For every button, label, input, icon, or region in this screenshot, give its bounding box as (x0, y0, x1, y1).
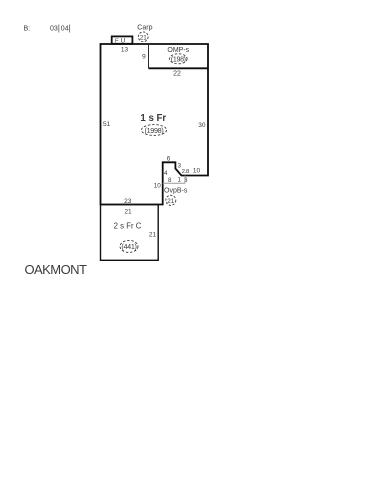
svg-text:(441): (441) (121, 242, 136, 251)
svg-text:13: 13 (121, 47, 129, 54)
svg-text:2.8: 2.8 (182, 169, 189, 175)
svg-text:Carp: Carp (137, 25, 152, 32)
OMP bottom divider (149, 67, 209, 69)
svg-text:6: 6 (167, 156, 171, 163)
svg-text:(198): (198) (171, 56, 186, 63)
svg-text:OMP-s: OMP-s (167, 47, 189, 54)
svg-text:22: 22 (173, 71, 181, 78)
svg-text:2 s Fr C: 2 s Fr C (114, 221, 142, 230)
svg-text:4: 4 (164, 170, 168, 177)
svg-text:51: 51 (103, 121, 111, 128)
svg-text:B:: B: (24, 26, 31, 33)
wing 2 s Fr C outline (101, 205, 159, 261)
area oval 1998 (141, 125, 166, 136)
svg-text:21: 21 (149, 232, 157, 239)
svg-text:OAKMONT: OAKMONT (25, 262, 87, 277)
area circle OvpB 21 (166, 195, 176, 205)
svg-text:OvpB-s: OvpB-s (164, 188, 188, 195)
svg-text:10: 10 (154, 183, 162, 190)
svg-text:21: 21 (124, 209, 132, 216)
main building outline 1 s Fr (101, 44, 209, 205)
svg-text:04: 04 (61, 26, 69, 33)
area circle Carp 21 (138, 32, 148, 42)
svg-text:(1998): (1998) (145, 126, 164, 135)
porch gray right edge (184, 176, 186, 184)
svg-text:21: 21 (140, 34, 148, 41)
svg-text:1 s Fr: 1 s Fr (140, 113, 166, 124)
svg-text:03: 03 (50, 26, 58, 33)
area oval OMP 198 (170, 54, 188, 64)
svg-text:1: 1 (178, 177, 182, 184)
svg-text:10: 10 (193, 167, 201, 174)
FU box (112, 36, 133, 43)
svg-text:21: 21 (167, 198, 175, 205)
area oval 441 (120, 240, 138, 252)
OMP left divider (148, 44, 150, 68)
svg-text:9: 9 (142, 54, 146, 61)
svg-text:30: 30 (198, 122, 206, 129)
porch gray bottom edge (163, 182, 185, 184)
